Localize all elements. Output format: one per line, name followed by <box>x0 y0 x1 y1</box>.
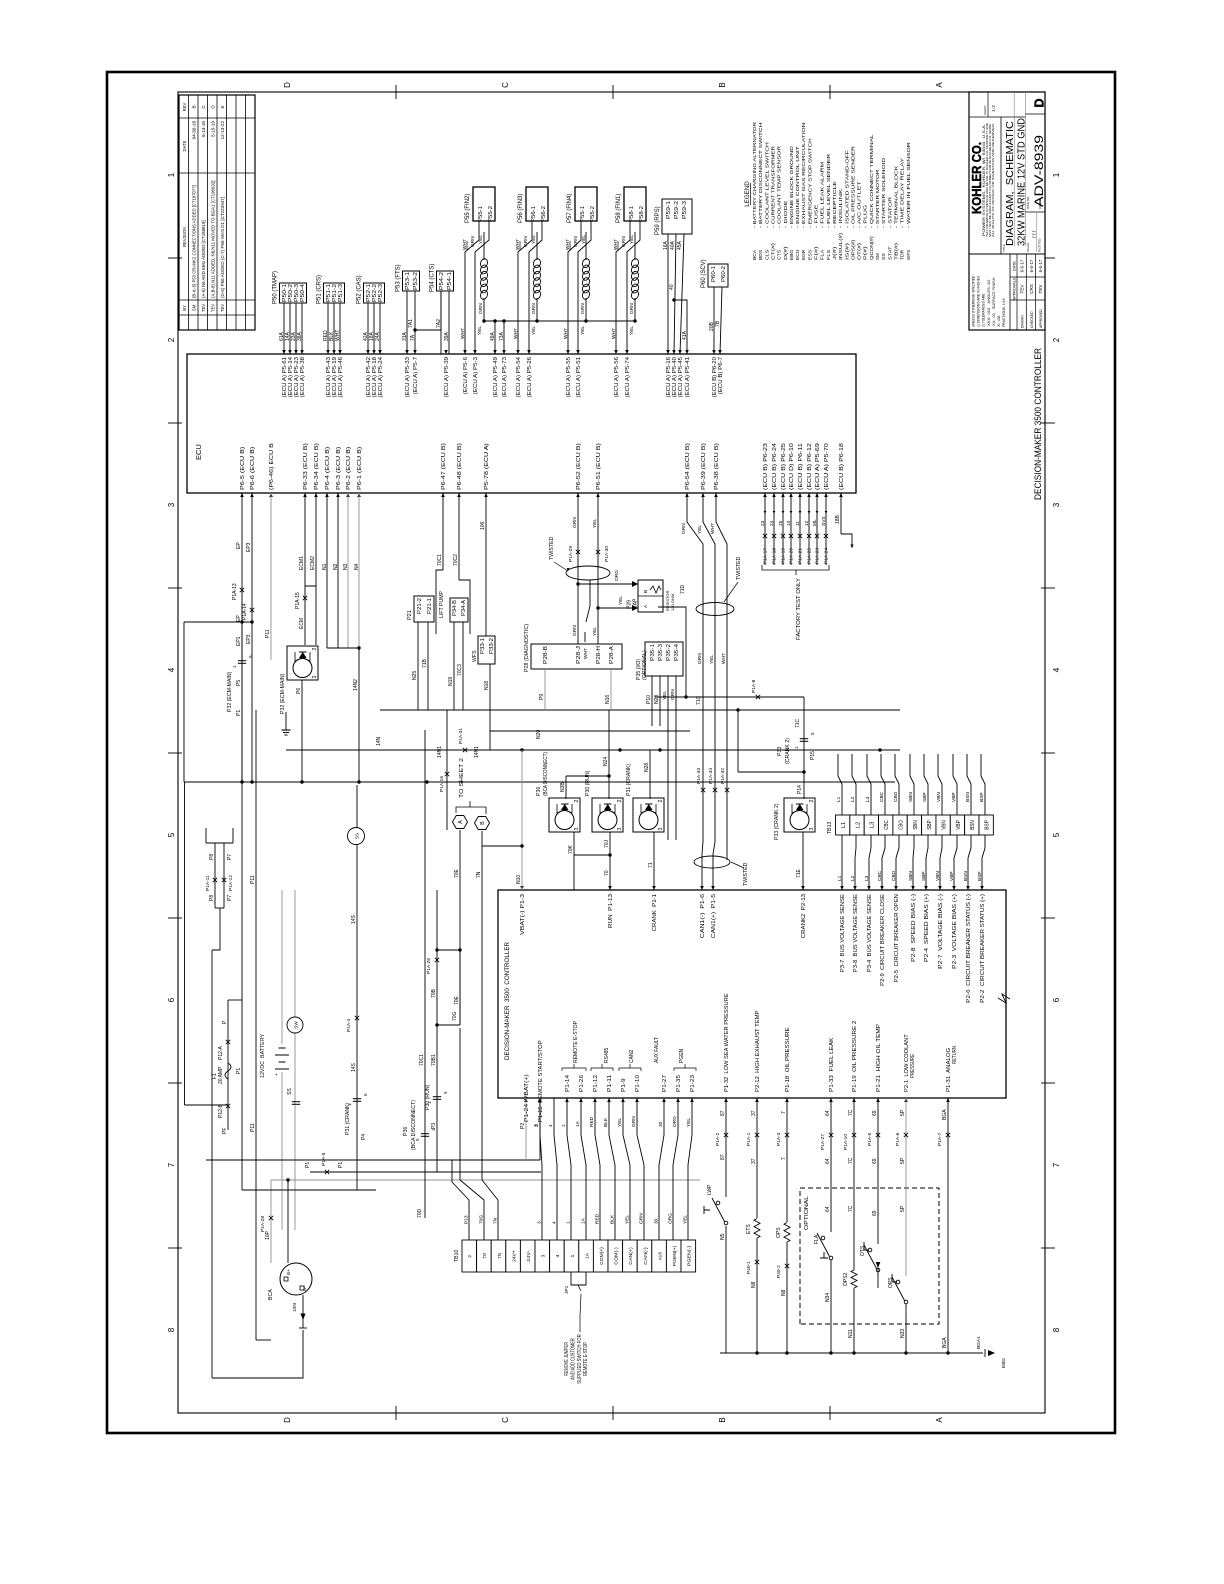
svg-text:- TIME DELAY RELAY: - TIME DELAY RELAY <box>900 157 906 228</box>
svg-text:RETURN: RETURN <box>952 1046 958 1064</box>
svg-text:24: 24 <box>769 520 775 526</box>
svg-text:- OIL PRESSURE SENDER: - OIL PRESSURE SENDER <box>850 145 856 228</box>
svg-text:P1A-1: P1A-1 <box>746 1132 752 1146</box>
wire N24 riser <box>608 710 610 750</box>
svg-text:P1-9: P1-9 <box>621 1078 627 1092</box>
title block drawing titles <box>1000 117 1002 254</box>
svg-text:ECU: ECU <box>795 249 801 260</box>
TB13 wires to controller <box>841 835 843 890</box>
svg-text:YEL: YEL <box>581 235 587 244</box>
relay P33 CRANK 2 <box>784 798 815 832</box>
svg-text:BSP: BSP <box>985 820 991 830</box>
svg-text:- ENGINE BLOCK GROUND: - ENGINE BLOCK GROUND <box>789 145 795 228</box>
svg-text:P1A-12: P1A-12 <box>228 875 234 891</box>
svg-text:B: B <box>718 82 727 87</box>
svg-text:YEL: YEL <box>618 596 624 605</box>
svg-text:1A: 1A <box>581 1217 587 1224</box>
svg-text:- COOLANT TEMP SENSOR: - COOLANT TEMP SENSOR <box>777 145 783 228</box>
svg-text:DATE: DATE <box>1013 261 1017 271</box>
svg-text:SS: SS <box>287 1088 293 1095</box>
svg-text:GRN: GRN <box>478 303 484 314</box>
ground at P32 <box>285 722 287 730</box>
svg-text:16A: 16A <box>663 240 669 250</box>
svg-text:11: 11 <box>795 521 801 526</box>
svg-text:P60-2: P60-2 <box>721 266 727 282</box>
svg-text:(CRANK 2): (CRANK 2) <box>785 738 791 764</box>
title block scale and dwg no <box>1025 253 1045 255</box>
svg-text:E: E <box>220 105 225 108</box>
svg-text:CAP: CAP <box>633 598 639 609</box>
wire N20 <box>490 730 690 732</box>
svg-text:ECM2: ECM2 <box>310 556 316 570</box>
svg-text:7: 7 <box>781 1111 787 1114</box>
svg-text:P1A-15: P1A-15 <box>295 592 301 609</box>
svg-text:87: 87 <box>720 1110 726 1116</box>
svg-text:L3: L3 <box>864 875 870 881</box>
svg-text:CBC: CBC <box>877 870 883 881</box>
svg-text:7: 7 <box>167 1162 176 1167</box>
svg-text:P6-48 (ECU B): P6-48 (ECU B) <box>457 443 463 490</box>
svg-text:P1A-34: P1A-34 <box>708 768 714 784</box>
svg-text:GRN: GRN <box>470 236 476 247</box>
svg-text:APPROVALS: APPROVALS <box>1013 277 1017 300</box>
svg-text:3: 3 <box>534 1124 540 1127</box>
svg-text:71E: 71E <box>796 868 802 878</box>
svg-text:WFS: WFS <box>906 250 912 260</box>
svg-text:TDR: TDR <box>900 249 906 260</box>
svg-text:P28-H: P28-H <box>596 646 602 664</box>
svg-text:P34-B: P34-B <box>452 599 458 616</box>
svg-text:P33-1: P33-1 <box>480 638 486 654</box>
svg-text:14N1: 14N1 <box>437 746 443 758</box>
svg-text:- STATOR: - STATOR <box>887 196 893 228</box>
svg-text:YEL: YEL <box>709 655 715 664</box>
svg-text:P1A-23: P1A-23 <box>815 548 821 564</box>
svg-text:P35-1: P35-1 <box>650 644 656 661</box>
svg-text:P6: P6 <box>296 688 302 694</box>
svg-text:1A: 1A <box>575 1120 581 1127</box>
svg-text:(ECU B) P6-18: (ECU B) P6-18 <box>839 443 845 490</box>
svg-text:B: B <box>643 590 649 593</box>
svg-text:N16: N16 <box>605 695 611 704</box>
svg-text:LWP: LWP <box>707 1184 713 1195</box>
svg-text:P1-21 HIGH OIL TEMP: P1-21 HIGH OIL TEMP <box>876 1023 882 1092</box>
hex connector B to sheet 2 <box>475 817 490 830</box>
wire 64 FLA switch <box>830 1098 832 1232</box>
twisted ellipse CAN pair <box>694 856 730 868</box>
svg-text:SBP: SBP <box>921 871 927 881</box>
connector P60 (SCV) <box>708 264 728 287</box>
svg-text:P1A-5: P1A-5 <box>867 1132 873 1146</box>
svg-text:1: 1 <box>167 172 176 177</box>
svg-text:OPS: OPS <box>776 1227 782 1238</box>
svg-text:P6-1 (ECU B): P6-1 (ECU B) <box>357 446 363 490</box>
svg-text:71: 71 <box>648 862 654 868</box>
svg-text:YEL: YEL <box>478 235 484 244</box>
svg-text:5: 5 <box>1052 832 1061 837</box>
svg-text:N3B: N3B <box>560 782 566 792</box>
svg-text:- QUICK CONNECT TERMINAL: - QUICK CONNECT TERMINAL <box>869 134 875 228</box>
svg-text:12VDC BATTERY: 12VDC BATTERY <box>260 1034 266 1078</box>
wire 7C OPS2 <box>853 1098 855 1270</box>
svg-text:(ECU A) P5-70: (ECU A) P5-70 <box>824 443 830 490</box>
svg-text:2) TOLERANCES ARE:: 2) TOLERANCES ARE: <box>982 293 986 327</box>
svg-text:REMOTE E-STOP: REMOTE E-STOP <box>583 1342 589 1376</box>
svg-text:23: 23 <box>760 520 766 526</box>
svg-text:- DIODE: - DIODE <box>783 201 789 228</box>
svg-text:D(#): D(#) <box>783 246 789 260</box>
svg-text:6: 6 <box>1052 997 1061 1002</box>
svg-text:P9: P9 <box>539 694 545 700</box>
svg-text:64: 64 <box>825 1206 831 1212</box>
svg-text:10: 10 <box>786 520 792 526</box>
svg-text:VBN: VBN <box>941 820 947 830</box>
wire ECM1 <box>304 493 306 645</box>
svg-text:AUX FAULT: AUX FAULT <box>654 1037 660 1063</box>
svg-text:37: 37 <box>751 1158 757 1164</box>
svg-text:ECU: ECU <box>194 444 203 460</box>
svg-text:VBN: VBN <box>935 871 941 881</box>
svg-text:P30 (RUN): P30 (RUN) <box>425 1084 431 1110</box>
svg-text:64: 64 <box>825 1110 831 1116</box>
svg-text:CAN1(+) P1-5: CAN1(+) P1-5 <box>711 894 717 938</box>
svg-text:CBC: CBC <box>884 820 890 830</box>
svg-text:3: 3 <box>574 828 580 831</box>
svg-text:D: D <box>283 1417 292 1423</box>
svg-text:70B1: 70B1 <box>431 1054 437 1066</box>
svg-text:P11: P11 <box>265 629 271 638</box>
svg-text:P1A-13: P1A-13 <box>232 583 238 600</box>
wire 41A <box>674 300 687 354</box>
svg-text:P1-12: P1-12 <box>593 1075 599 1092</box>
svg-text:70E: 70E <box>454 868 460 878</box>
svg-text:- COOLANT LEVEL SWITCH: - COOLANT LEVEL SWITCH <box>764 141 770 228</box>
svg-text:N10: N10 <box>516 875 522 884</box>
svg-text:2: 2 <box>1052 337 1061 342</box>
svg-text:(BCA DISCONNECT): (BCA DISCONNECT) <box>411 1100 417 1150</box>
svg-text:- INSULINK: - INSULINK <box>838 188 844 228</box>
optional dashed box <box>800 1188 939 1324</box>
svg-text:- BATTERY DISCONNECT SWITCH: - BATTERY DISCONNECT SWITCH <box>758 122 764 228</box>
svg-text:VBP: VBP <box>951 792 957 802</box>
svg-text:1: 1 <box>570 1254 576 1257</box>
svg-text:3: 3 <box>658 828 664 831</box>
svg-text:6-6-17: 6-6-17 <box>1020 259 1025 272</box>
connector P54 (CTS) <box>437 271 454 291</box>
svg-text:.XXX: .010 ANGLES: 1/2: .XXX: .010 ANGLES: 1/2 <box>987 280 991 328</box>
svg-text:12: 12 <box>804 520 810 526</box>
svg-text:F(#): F(#) <box>814 246 820 260</box>
svg-text:N8: N8 <box>751 1281 757 1288</box>
svg-text:P2-3 VOLTAGE BIAS (+): P2-3 VOLTAGE BIAS (+) <box>952 894 958 969</box>
svg-text:P36: P36 <box>403 1127 409 1136</box>
svg-text:70G: 70G <box>452 1011 458 1021</box>
svg-text:7C: 7C <box>848 1157 854 1164</box>
svg-text:P1-24 VBAT(+): P1-24 VBAT(+) <box>524 1074 530 1122</box>
svg-text:N33: N33 <box>900 1329 906 1338</box>
svg-text:5: 5 <box>443 1091 448 1094</box>
svg-text:SUPPLIED SWITCH FOR: SUPPLIED SWITCH FOR <box>577 1334 583 1384</box>
svg-text:(A,B-8) N11 ADDED, N8,N11 MOVE: (A,B-8) N11 ADDED, N8,N11 MOVED TO BGA1 … <box>211 181 216 299</box>
svg-text:12-13-22: 12-13-22 <box>220 121 225 140</box>
svg-text:YEL: YEL <box>617 1118 623 1127</box>
svg-text:P6-2 (ECU B): P6-2 (ECU B) <box>346 446 352 490</box>
svg-text:30: 30 <box>658 1121 664 1127</box>
wire N18 <box>489 664 491 750</box>
wire EP3 <box>251 493 253 782</box>
svg-text:YEL: YEL <box>683 1215 689 1224</box>
svg-text:P1A-9: P1A-9 <box>321 1152 327 1166</box>
wire left return <box>211 950 213 1378</box>
svg-text:AUX: AUX <box>657 1251 663 1260</box>
svg-text:P6-6 (ECU B): P6-6 (ECU B) <box>250 446 256 490</box>
svg-text:8: 8 <box>1052 1327 1061 1332</box>
svg-text:P36: P36 <box>536 787 542 796</box>
svg-text:P1A-29: P1A-29 <box>568 546 574 562</box>
svg-text:1A: 1A <box>584 1252 590 1259</box>
wire 5P OPS switch <box>905 1098 907 1276</box>
svg-text:CBC: CBC <box>879 791 885 802</box>
svg-text:P1A-27: P1A-27 <box>820 1134 826 1150</box>
svg-text:73A: 73A <box>499 331 505 341</box>
revision table <box>179 95 255 330</box>
svg-text:B+: B+ <box>286 1269 291 1275</box>
svg-text:(ECU A) P5-55: (ECU A) P5-55 <box>566 357 572 397</box>
long GRN YEL WHT to CAN <box>687 493 703 890</box>
svg-text:L1: L1 <box>837 875 843 881</box>
svg-text:BSP: BSP <box>979 792 985 802</box>
svg-text:PLOTTED: PLOTTED <box>1038 239 1042 252</box>
svg-text:ECM1: ECM1 <box>299 556 305 570</box>
svg-text:INSUL(#): INSUL(#) <box>838 232 844 260</box>
svg-text:F1: F1 <box>212 1073 218 1079</box>
svg-text:(ECU B) P6-24: (ECU B) P6-24 <box>772 443 778 490</box>
svg-text:P1-14: P1-14 <box>565 1075 571 1092</box>
wires 70C1 70C2 <box>442 493 444 570</box>
svg-text:7N: 7N <box>493 1217 499 1224</box>
border outer frame <box>107 72 1115 1433</box>
wire N16 <box>610 669 612 710</box>
svg-text:7B: 7B <box>715 320 721 327</box>
svg-text:3: 3 <box>617 828 623 831</box>
svg-text:TWISTED: TWISTED <box>549 536 555 560</box>
svg-text:4: 4 <box>552 1221 558 1224</box>
svg-text:RUN P1-13: RUN P1-13 <box>608 894 614 928</box>
svg-text:3: 3 <box>541 1254 547 1257</box>
svg-text:BDS: BDS <box>758 250 764 260</box>
svg-text:- STARTER SOLENOID: - STARTER SOLENOID <box>881 157 887 228</box>
svg-text:FACTORY TEST ONLY: FACTORY TEST ONLY <box>796 578 802 640</box>
svg-text:- BATTERY CHARGING ALTERNATOR: - BATTERY CHARGING ALTERNATOR <box>752 121 758 228</box>
svg-text:GRN: GRN <box>531 303 537 314</box>
svg-text:- TERMINAL BLOCK: - TERMINAL BLOCK <box>893 164 899 228</box>
svg-text:P56-1: P56-1 <box>531 206 537 222</box>
svg-text:B: B <box>718 1417 727 1422</box>
svg-text:P32 (ECM-MAIN): P32 (ECM-MAIN) <box>227 671 233 712</box>
svg-text:P14: P14 <box>797 785 803 794</box>
svg-text:P2-8 SPEED BIAS (-): P2-8 SPEED BIAS (-) <box>911 894 917 962</box>
svg-text:P2-6 CIRCUIT BREAKER STATUS (: P2-6 CIRCUIT BREAKER STATUS (-) <box>966 894 972 1003</box>
svg-text:P35-4: P35-4 <box>674 644 680 661</box>
svg-text:P1-35: P1-35 <box>676 1075 682 1092</box>
svg-text:(ECU A) P5-39: (ECU A) P5-39 <box>444 357 450 397</box>
svg-text:GRN: GRN <box>572 517 578 528</box>
svg-text:P1A-32: P1A-32 <box>720 768 726 784</box>
connector P53 (FTS) <box>403 271 420 291</box>
svg-text:87: 87 <box>720 1154 726 1160</box>
svg-text:P31 (CRANK): P31 (CRANK) <box>626 763 632 796</box>
svg-text:5-15-19: 5-15-19 <box>211 121 216 137</box>
wire 87 LWP switch <box>725 1098 727 1197</box>
svg-text:7C: 7C <box>848 1205 854 1212</box>
svg-text:P12-A: P12-A <box>218 1045 224 1060</box>
svg-text:SCALE: SCALE <box>1026 242 1030 252</box>
svg-text:P1-10: P1-10 <box>635 1075 641 1092</box>
svg-text:P1-18 OIL PRESSURE: P1-18 OIL PRESSURE <box>785 1027 791 1092</box>
svg-text:(ECU A) P5-6: (ECU A) P5-6 <box>463 357 469 394</box>
svg-text:P1-26: P1-26 <box>579 1075 585 1092</box>
svg-text:LIFT PUMP: LIFT PUMP <box>439 590 445 618</box>
svg-text:P50-4: P50-4 <box>300 284 306 302</box>
svg-text:EP: EP <box>236 542 242 549</box>
svg-text:EP3: EP3 <box>246 542 252 552</box>
svg-text:ETS: ETS <box>746 1224 752 1234</box>
svg-text:D: D <box>1033 98 1047 107</box>
wire 71C riser P1A-8 <box>655 696 804 698</box>
svg-text:CAN2: CAN2 <box>629 1049 635 1063</box>
svg-text:GRN: GRN <box>629 303 635 314</box>
svg-text:P2-2 CIRCUIT BREAKER STATUS (: P2-2 CIRCUIT BREAKER STATUS (+) <box>980 894 986 1003</box>
svg-text:- ISOLATED STAND-OFF: - ISOLATED STAND-OFF <box>844 150 850 228</box>
svg-text:DWG NO.: DWG NO. <box>1026 196 1030 209</box>
svg-text:A: A <box>935 82 944 88</box>
svg-text:P28 (DIAGNOSTIC): P28 (DIAGNOSTIC) <box>524 624 530 672</box>
svg-text:4: 4 <box>167 667 176 672</box>
svg-text:P6-38 (ECU B): P6-38 (ECU B) <box>714 443 720 490</box>
wire ECM2 <box>305 586 316 645</box>
svg-text:TWISTED: TWISTED <box>743 862 749 886</box>
wire N3B to N24 link <box>566 775 609 777</box>
svg-text:P8: P8 <box>209 895 215 901</box>
ground 10N at BCA <box>302 1295 304 1320</box>
svg-text:40A: 40A <box>670 240 676 250</box>
svg-text:120 OHM: 120 OHM <box>670 594 675 611</box>
wire 106 and WFS connector <box>485 493 487 636</box>
twisted pair GRN YEL P6-52 P6-51 <box>577 493 579 644</box>
svg-text:- PLUG: - PLUG <box>863 204 869 228</box>
svg-text:FLA: FLA <box>820 249 826 260</box>
svg-text:P1: P1 <box>236 1068 242 1074</box>
svg-text:GRN: GRN <box>523 236 529 247</box>
svg-text:BLK: BLK <box>603 1117 609 1127</box>
svg-text:AND ADD CUSTOMER: AND ADD CUSTOMER <box>570 1338 576 1380</box>
svg-text:YEL: YEL <box>580 326 586 335</box>
svg-text:70J: 70J <box>604 839 610 848</box>
svg-text:P21: P21 <box>407 610 413 620</box>
svg-text:CBO: CBO <box>893 791 899 802</box>
svg-text:P60 (SCV): P60 (SCV) <box>701 259 707 288</box>
svg-text:- EXHAUST GAS RECIRCULATION: - EXHAUST GAS RECIRCULATION <box>801 122 807 228</box>
svg-text:P1A-22: P1A-22 <box>807 548 813 564</box>
svg-text:P12-B: P12-B <box>218 1103 224 1118</box>
svg-text:P52-3: P52-3 <box>378 284 384 302</box>
left verticals <box>242 1189 376 1191</box>
svg-text:FLA: FLA <box>814 1234 820 1244</box>
svg-text:P59-3: P59-3 <box>682 201 688 219</box>
svg-text:GRN: GRN <box>631 1116 637 1127</box>
svg-text:(ECU A) P5-73: (ECU A) P5-73 <box>502 357 508 397</box>
svg-text:REMOVE JUMPER: REMOVE JUMPER <box>564 1342 570 1376</box>
wire P11 from ECU P6-46 <box>270 493 272 660</box>
svg-text:18B: 18B <box>835 514 841 524</box>
factory test wires P1A-17 to P1A-24 <box>764 493 766 565</box>
svg-text:P6-4 (ECU B): P6-4 (ECU B) <box>325 446 331 490</box>
svg-text:P1A-24: P1A-24 <box>824 548 830 564</box>
svg-text:3: 3 <box>167 502 176 507</box>
svg-text:P58-1: P58-1 <box>629 206 635 222</box>
svg-text:8: 8 <box>167 1327 176 1332</box>
svg-text:REV: REV <box>182 102 187 111</box>
svg-text:CAN(+): CAN(+) <box>628 1247 634 1265</box>
svg-text:P1A-2: P1A-2 <box>715 1132 721 1146</box>
svg-text:(ECU A) P5-46: (ECU A) P5-46 <box>338 357 344 397</box>
svg-text:P3-7 BUS VOLTAGE SENSE: P3-7 BUS VOLTAGE SENSE <box>840 893 846 972</box>
svg-text:7: 7 <box>1052 1162 1061 1167</box>
svg-text:P55-2: P55-2 <box>488 206 494 222</box>
svg-text:YEL: YEL <box>625 1215 631 1224</box>
wire 71B <box>427 622 429 710</box>
svg-text:2: 2 <box>658 800 664 803</box>
wire 37 ETS <box>756 1098 758 1218</box>
svg-text:4: 4 <box>555 1254 561 1257</box>
svg-text:WFS: WFS <box>472 650 478 662</box>
svg-text:P35-2: P35-2 <box>666 644 672 661</box>
svg-text:BCA: BCA <box>268 1289 274 1300</box>
fuse F1 20 AMP <box>225 1063 231 1079</box>
svg-text:STAT: STAT <box>887 246 893 260</box>
wire N10 14N1 <box>521 750 523 890</box>
svg-text:P33-2: P33-2 <box>489 638 495 654</box>
svg-text:P2: P2 <box>520 1123 526 1129</box>
svg-text:(ECU A) P5-74: (ECU A) P5-74 <box>625 357 631 397</box>
wire hex B to N10 <box>482 845 522 847</box>
relay P36 BCA DISCONNECT <box>549 798 580 832</box>
svg-text:PF: PF <box>222 1128 228 1134</box>
svg-text:DRAWN: DRAWN <box>1021 315 1025 328</box>
svg-text:CBO: CBO <box>891 870 897 881</box>
svg-text:(ECU A) P5-26: (ECU A) P5-26 <box>527 357 533 397</box>
svg-text:N1: N1 <box>322 563 328 570</box>
svg-text:P57 (FIN4): P57 (FIN4) <box>567 194 573 223</box>
svg-text:(ECU A) P5-69: (ECU A) P5-69 <box>815 443 821 490</box>
svg-text:VBP: VBP <box>949 871 955 881</box>
svg-text:7: 7 <box>781 1157 787 1160</box>
svg-text:SBN: SBN <box>908 792 914 802</box>
svg-text:SS: SS <box>881 253 887 260</box>
svg-text:(ECU A) P5-45: (ECU A) P5-45 <box>678 357 684 397</box>
svg-text:7N: 7N <box>497 1253 503 1259</box>
svg-text:P1A-20: P1A-20 <box>789 548 795 564</box>
svg-text:EP1: EP1 <box>236 636 242 646</box>
svg-text:P7: P7 <box>227 895 233 901</box>
wire 70G from TB10 <box>460 1028 484 1240</box>
svg-text:P1A-16: P1A-16 <box>439 776 445 792</box>
svg-text:71C: 71C <box>696 695 702 705</box>
svg-text:QCON(#): QCON(#) <box>869 236 875 260</box>
svg-text:(B-4,-5) P53 CRANK2 CONNECTION: (B-4,-5) P53 CRANK2 CONNECTIONS ADDED [C… <box>192 185 197 298</box>
capacitor P15 71C <box>803 697 805 799</box>
svg-text:ESS: ESS <box>807 250 813 260</box>
